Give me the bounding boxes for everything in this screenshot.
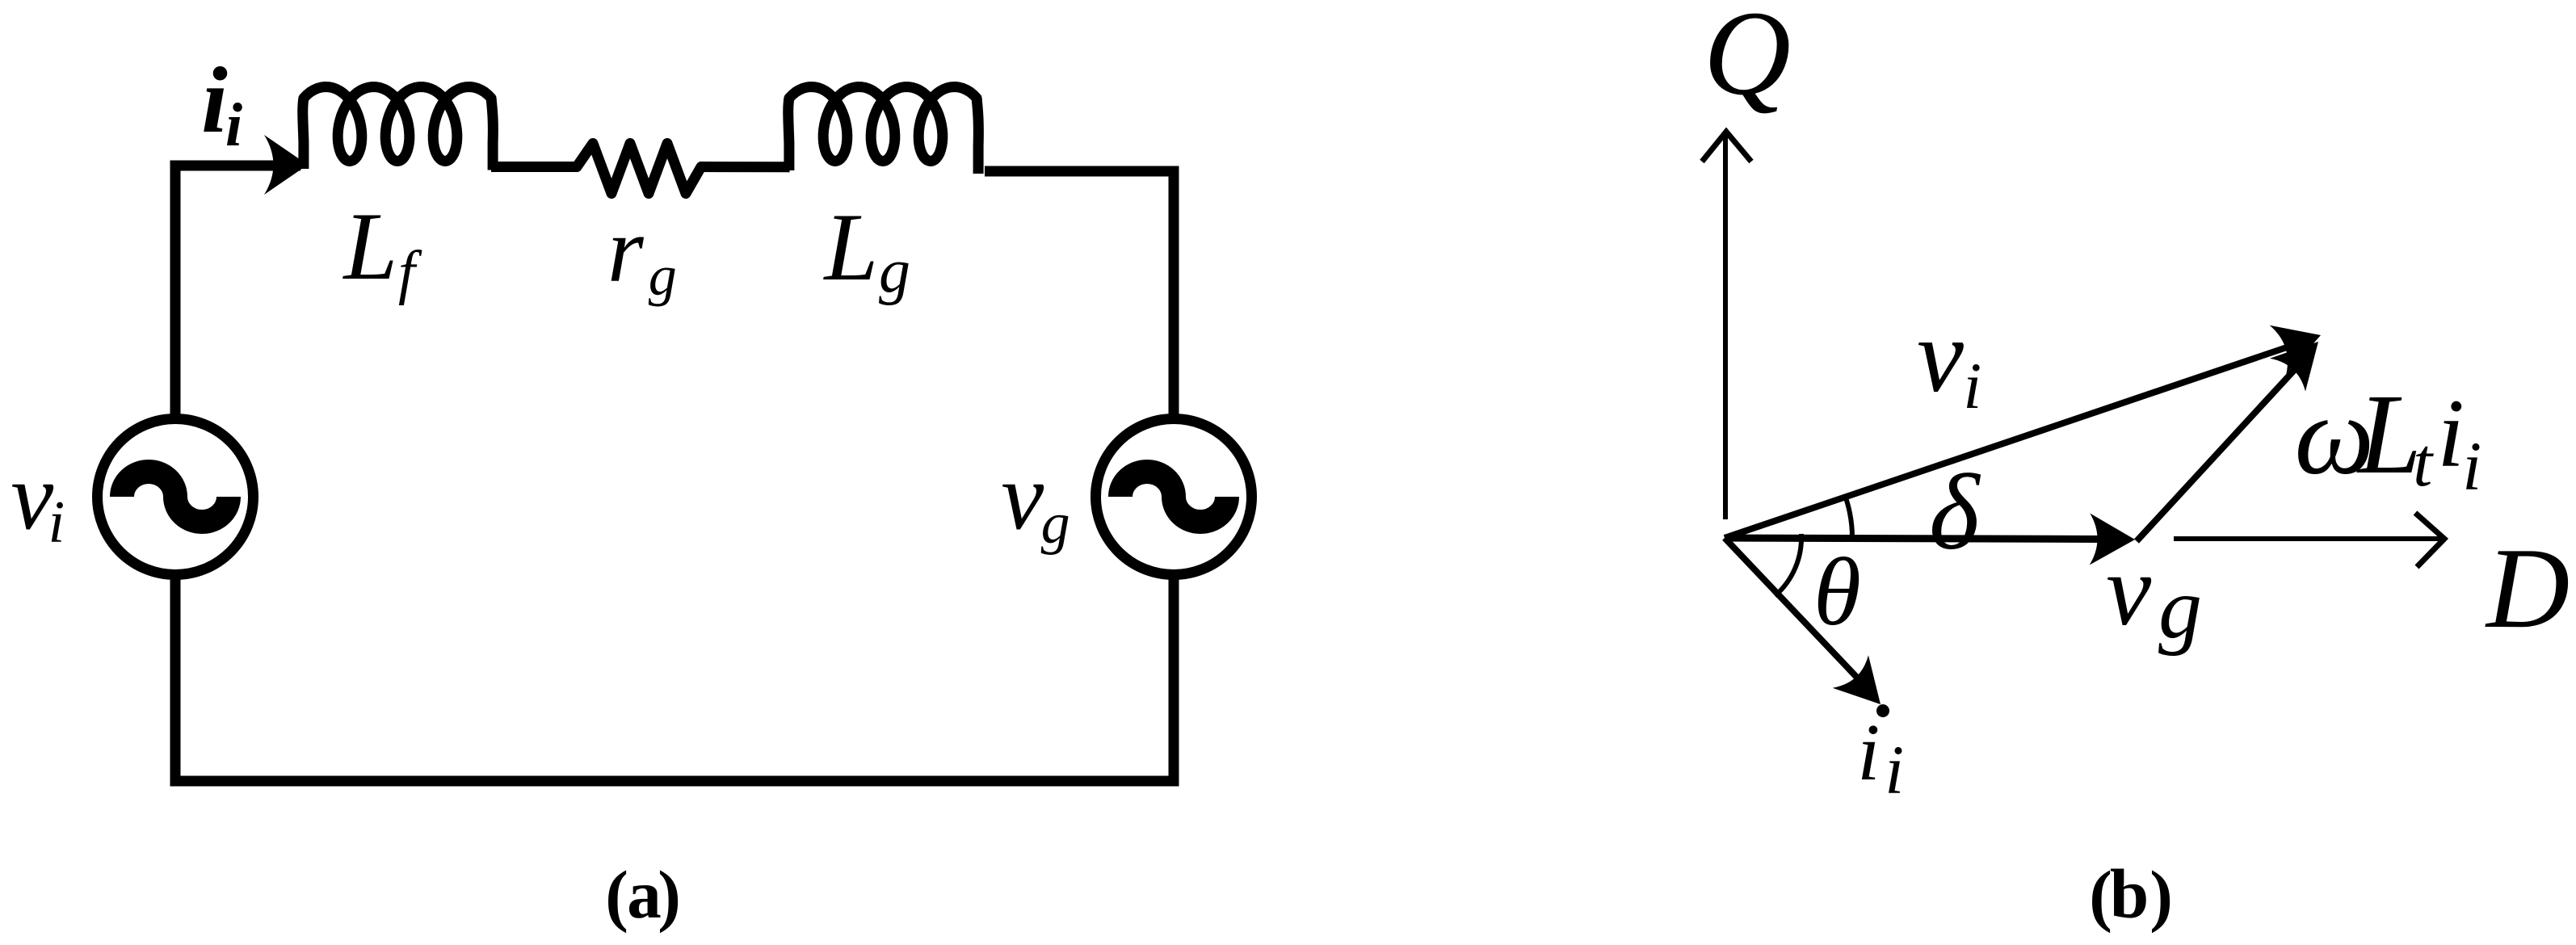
vector v_g arrowhead (2090, 514, 2135, 565)
svg-text:L: L (823, 193, 879, 300)
svg-text:D: D (2485, 524, 2570, 652)
svg-text:g: g (649, 245, 677, 307)
Q axis arrowhead (1702, 132, 1751, 162)
D axis (horizontal line) (2174, 536, 2441, 541)
svg-text:i: i (2462, 427, 2481, 505)
svg-text:v: v (2106, 535, 2151, 647)
wire: bottom rail with both corners (175, 573, 1174, 781)
svg-text:b: b (2110, 855, 2149, 933)
svg-text:t: t (2413, 423, 2434, 501)
dot at tip of i_i (1876, 704, 1889, 717)
svg-text:i: i (201, 48, 228, 153)
svg-text:i: i (225, 91, 242, 159)
angle arc delta (1845, 494, 1853, 540)
inductor L_g (788, 87, 979, 174)
svg-text:δ: δ (1929, 452, 1981, 572)
Q axis (vertical line) (1723, 134, 1728, 519)
svg-text:f: f (398, 239, 422, 306)
resistor r_g (577, 144, 701, 194)
voltage source v_i (left circle) (98, 419, 254, 575)
vector v_i arrowhead (2270, 325, 2321, 375)
svg-text:i: i (1857, 707, 1880, 797)
svg-text:): ) (2149, 856, 2173, 934)
arrow for current i_i on top wire (264, 135, 308, 195)
vector v_i (line) (1725, 346, 2289, 538)
svg-text:a: a (627, 857, 662, 933)
wire between resistor and L_g (700, 162, 790, 173)
angle arc theta (1775, 534, 1801, 596)
svg-text:L: L (342, 192, 398, 300)
svg-text:i: i (2437, 380, 2465, 488)
svg-text:v: v (1917, 298, 1964, 414)
sine symbol in v_i source (122, 472, 229, 522)
svg-text:i: i (1885, 731, 1904, 808)
wire: top rail right segment + right vertical (985, 171, 1174, 420)
svg-text:L: L (2356, 370, 2422, 498)
svg-text:θ: θ (1813, 538, 1861, 645)
vector i_i arrowhead (1833, 655, 1881, 704)
svg-text:(: ( (605, 856, 628, 934)
svg-text:g: g (2158, 561, 2202, 657)
sine symbol in v_g source (1120, 472, 1227, 522)
vector i_i (line) (1725, 538, 1859, 679)
svg-text:v: v (11, 443, 53, 550)
wire: left vertical + top-left rail corner (175, 166, 300, 420)
inductor L_f (303, 87, 494, 170)
vector omega*Lt*ii arrowhead (2270, 342, 2318, 392)
svg-text:v: v (1001, 443, 1044, 550)
svg-text:r: r (607, 199, 645, 301)
svg-text:(: ( (2089, 856, 2112, 934)
vector omega*Lt*ii from v_g tip to v_i tip (line) (2137, 366, 2298, 541)
svg-text:Q: Q (1704, 0, 1791, 120)
wire between L_f and resistor (491, 162, 578, 172)
voltage source v_g (right circle) (1096, 419, 1252, 575)
svg-text:g: g (1041, 491, 1070, 556)
svg-text:i: i (48, 489, 65, 556)
vector v_g (line) (1725, 538, 2100, 540)
D axis arrowhead (2415, 513, 2444, 567)
svg-text:g: g (879, 236, 910, 306)
svg-text:): ) (658, 856, 681, 934)
svg-text:i: i (1963, 349, 1981, 422)
